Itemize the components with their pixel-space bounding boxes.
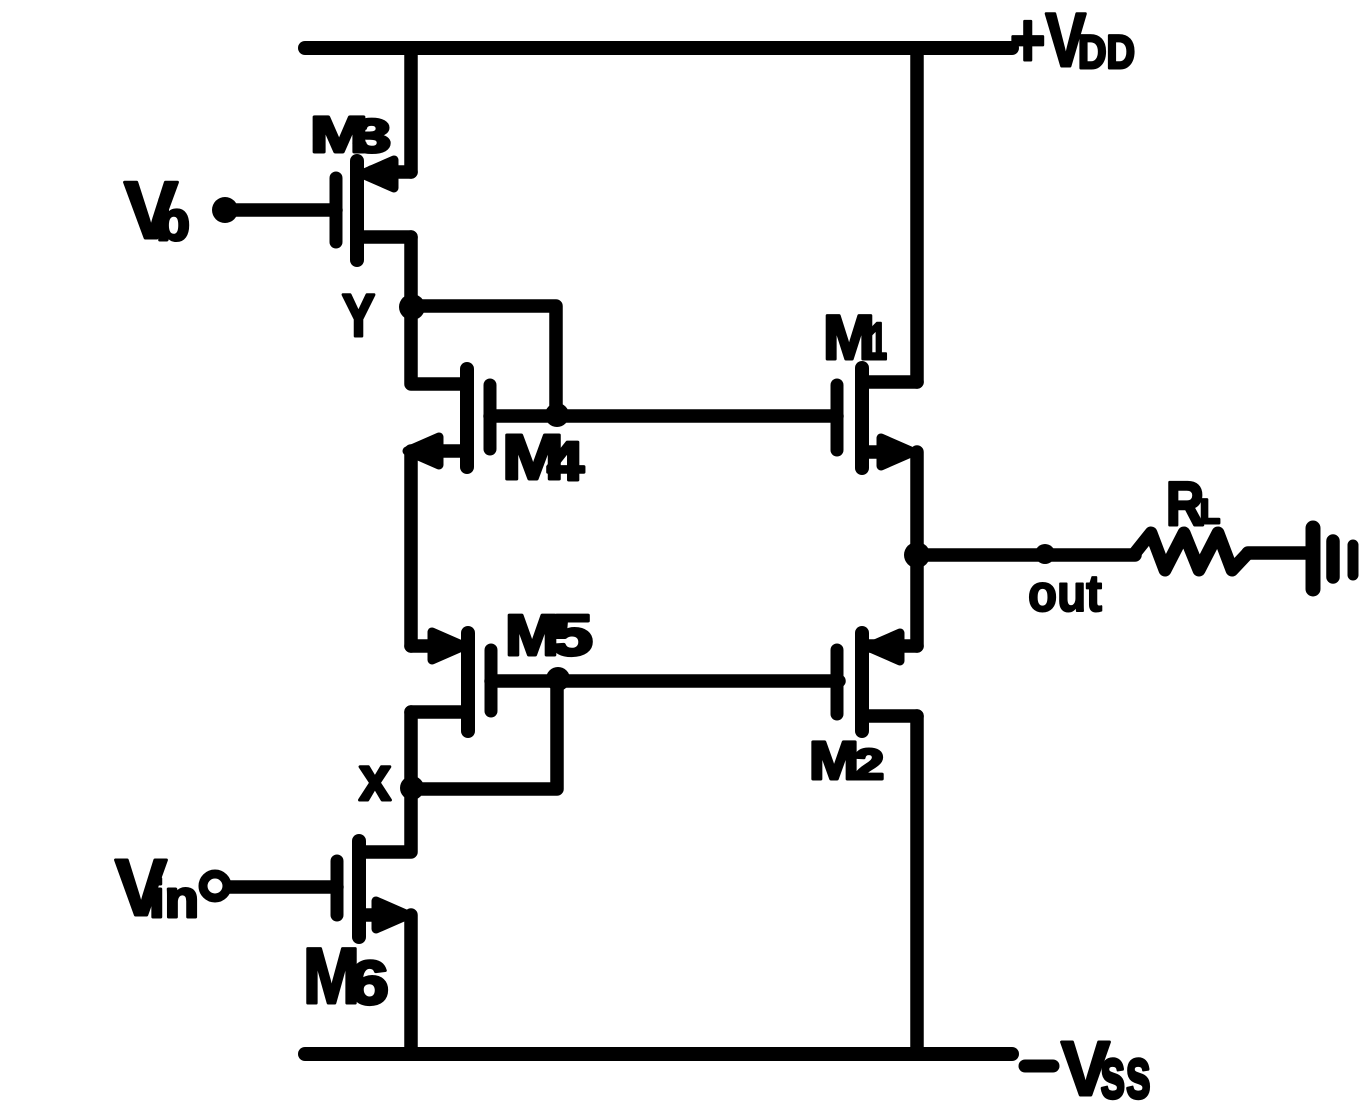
label -VSS bbox=[1025, 1026, 1151, 1114]
svg-text:M: M bbox=[809, 731, 859, 791]
node Vin input terminal (open circle) bbox=[203, 874, 227, 898]
label M1 bbox=[823, 303, 887, 373]
junction dot on gate bus bbox=[545, 403, 569, 427]
svg-text:5: 5 bbox=[551, 603, 593, 668]
svg-text:DD: DD bbox=[1078, 25, 1135, 78]
node X junction dot bbox=[400, 776, 424, 800]
label M5 bbox=[505, 603, 593, 668]
label RL bbox=[1166, 470, 1220, 539]
wire: M1 source down to out node and M2 drain bbox=[910, 452, 924, 646]
node out small dot bbox=[1035, 544, 1055, 564]
svg-text:4: 4 bbox=[547, 430, 584, 492]
label Vb bbox=[124, 166, 190, 256]
wire: M6 source down to -VSS rail bbox=[404, 915, 418, 1054]
wire: M5 source down to node X bbox=[404, 712, 418, 788]
node Y junction dot bbox=[399, 294, 425, 320]
wire: node X down to M6 drain bbox=[359, 788, 411, 852]
wire: M3 drain to node Y bbox=[404, 237, 418, 307]
wire: out node to resistor RL bbox=[917, 548, 1135, 562]
label Vin bbox=[115, 843, 199, 932]
wire: -VSS bottom rail bbox=[305, 1047, 1012, 1061]
transistor M2 bbox=[837, 633, 917, 731]
junction dot on gate bus (node X tie) bbox=[546, 667, 570, 691]
wire: VDD rail down to M1 drain bbox=[910, 48, 924, 382]
wire: M2 source down to -VSS rail bbox=[910, 716, 924, 1054]
label M6 bbox=[303, 931, 389, 1020]
svg-text:2: 2 bbox=[854, 741, 884, 789]
load terminal bars bbox=[1313, 528, 1353, 589]
wire: gate bus M4 to M1 bbox=[490, 409, 837, 423]
transistor M4 bbox=[407, 369, 490, 467]
wire: M4 source down to M5 bbox=[404, 451, 418, 646]
svg-text:L: L bbox=[1200, 493, 1220, 531]
wire: node X to gate bus junction bbox=[413, 681, 557, 789]
svg-text:ss: ss bbox=[1100, 1033, 1151, 1114]
svg-text:+V: +V bbox=[1010, 0, 1086, 83]
wire: RL to load terminal bbox=[1248, 546, 1307, 560]
transistor M5 bbox=[411, 632, 491, 731]
wire: Vb to M3 gate bbox=[228, 203, 336, 217]
label +VDD bbox=[1010, 0, 1135, 83]
label M4 bbox=[502, 421, 584, 493]
resistor RL bbox=[1135, 533, 1248, 570]
svg-text:6: 6 bbox=[349, 949, 389, 1018]
wire: gate bus M5 to M2 bbox=[491, 674, 839, 688]
transistor M1 bbox=[837, 368, 917, 468]
wire: node Y down to M4 drain bbox=[411, 307, 467, 384]
wire: Vin to M6 gate bbox=[229, 880, 337, 894]
transistor M6 bbox=[337, 841, 408, 937]
svg-text:out: out bbox=[1028, 565, 1102, 623]
label M2 bbox=[809, 731, 884, 791]
svg-text:in: in bbox=[149, 870, 199, 929]
wire: node Y to gate bus bbox=[412, 306, 556, 412]
svg-text:x: x bbox=[359, 744, 391, 814]
svg-text:1: 1 bbox=[869, 313, 887, 371]
node out junction dot bbox=[904, 542, 930, 568]
transistor M3 bbox=[336, 160, 411, 260]
svg-text:b: b bbox=[156, 189, 190, 252]
label M3 bbox=[310, 106, 391, 163]
wire: +VDD top rail bbox=[305, 41, 1012, 55]
svg-text:M: M bbox=[823, 303, 875, 373]
wire: VDD rail to M3 source bbox=[404, 48, 418, 172]
svg-text:3: 3 bbox=[353, 109, 391, 162]
node Vb terminal dot bbox=[212, 197, 238, 223]
svg-text:R: R bbox=[1166, 470, 1204, 539]
svg-text:Y: Y bbox=[342, 282, 375, 349]
